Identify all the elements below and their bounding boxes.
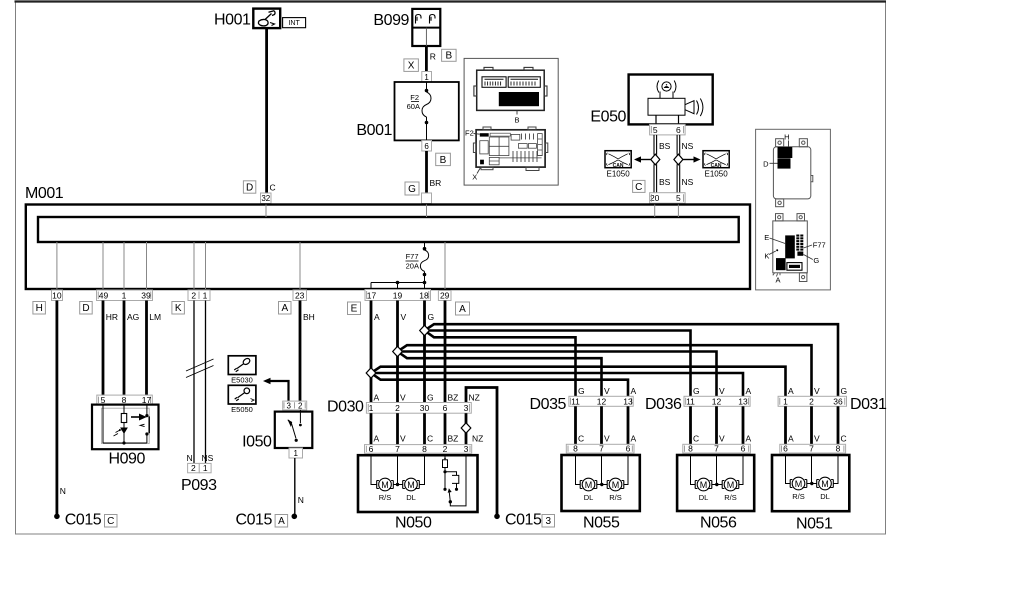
svg-text:1: 1 xyxy=(369,403,374,413)
splice diamond on G xyxy=(420,325,430,335)
wire R from B099 to B001 pin 1 xyxy=(425,46,428,72)
N051 motor DL xyxy=(817,477,834,490)
svg-text:BZ: BZ xyxy=(448,434,459,444)
svg-text:8: 8 xyxy=(122,395,127,405)
I050 internal switch xyxy=(288,410,301,439)
svg-text:2: 2 xyxy=(191,463,196,473)
svg-text:29: 29 xyxy=(440,290,450,300)
svg-text:A: A xyxy=(788,434,794,444)
svg-text:I050: I050 xyxy=(242,434,272,451)
svg-text:E5050: E5050 xyxy=(231,405,253,414)
svg-text:H090: H090 xyxy=(109,451,146,468)
N055 pin strip 8 7 6 xyxy=(566,444,634,454)
E050 siren icon xyxy=(648,81,703,125)
A branch to D035 pin 13 xyxy=(371,373,628,396)
N051 pin strip 6 7 8 xyxy=(780,444,846,454)
INT box label xyxy=(283,18,306,28)
fuse value label F2 60A xyxy=(407,93,420,111)
V branch to D031 pin 2 xyxy=(398,345,812,396)
M001 pin 10 box xyxy=(52,290,63,301)
connector label E (boxed) xyxy=(348,302,361,315)
svg-text:C: C xyxy=(270,183,276,193)
svg-text:6: 6 xyxy=(783,444,788,454)
H001 icon xyxy=(258,11,275,26)
fuse F2 60A symbol inside B001 xyxy=(422,82,431,140)
wire BH from M001 pin 23 to I050 xyxy=(299,301,302,402)
svg-text:DL: DL xyxy=(820,492,830,501)
H090 pin strip 5 8 17 xyxy=(97,395,153,405)
M001 pin strip 17 19 18 xyxy=(365,290,431,301)
bottom-left black block xyxy=(776,258,786,270)
svg-text:R/S: R/S xyxy=(379,493,392,502)
svg-text:A: A xyxy=(459,304,466,315)
I050 pin strip 3 2 xyxy=(283,401,307,410)
twisted pair wires to P093 xyxy=(193,301,195,464)
M001 internal pin stubs (top) xyxy=(266,205,678,218)
svg-text:M: M xyxy=(381,480,389,490)
svg-text:R/S: R/S xyxy=(724,493,737,502)
svg-text:N: N xyxy=(187,453,193,463)
svg-text:DL: DL xyxy=(406,493,416,502)
N056 motor DL xyxy=(695,478,712,491)
svg-text:X: X xyxy=(408,61,415,72)
svg-text:3: 3 xyxy=(546,516,552,527)
svg-text:2: 2 xyxy=(443,444,448,454)
fusebox mini-picture X xyxy=(473,127,547,171)
svg-text:C: C xyxy=(841,434,847,444)
svg-text:1: 1 xyxy=(783,396,788,406)
E050 pin strip 5 6 xyxy=(650,124,686,134)
svg-text:12: 12 xyxy=(597,396,607,406)
svg-text:18: 18 xyxy=(419,290,429,300)
door lock actuator N051 box xyxy=(772,455,849,511)
svg-text:7: 7 xyxy=(599,444,604,454)
bottom connector strip xyxy=(787,263,802,271)
svg-text:2: 2 xyxy=(298,401,303,410)
svg-text:D030: D030 xyxy=(327,399,364,416)
svg-text:5: 5 xyxy=(676,193,681,203)
svg-text:HR: HR xyxy=(106,312,118,322)
svg-text:5: 5 xyxy=(653,125,658,135)
svg-text:D: D xyxy=(763,160,769,169)
M001 inner box xyxy=(38,217,739,242)
siren E050 label and box xyxy=(590,75,712,126)
svg-text:BR: BR xyxy=(430,178,442,188)
svg-text:8: 8 xyxy=(688,444,693,454)
connector D block with label xyxy=(778,158,791,168)
CAN wire NS (double line) xyxy=(677,135,680,193)
svg-text:R/S: R/S xyxy=(792,492,805,501)
connector label G (boxed) xyxy=(405,182,419,195)
svg-text:CAN: CAN xyxy=(711,163,722,169)
svg-text:M: M xyxy=(700,480,708,490)
svg-text:B099: B099 xyxy=(373,12,409,29)
connector label X (boxed) xyxy=(404,59,419,72)
body computer mini-picture B xyxy=(474,67,547,110)
fusebox B001 xyxy=(356,82,458,140)
G branch to D031 pin 36 xyxy=(425,324,839,396)
svg-text:G: G xyxy=(693,386,700,396)
svg-text:A: A xyxy=(374,312,380,322)
svg-text:2: 2 xyxy=(809,396,814,406)
border frame xyxy=(15,2,887,535)
locator box (right side) xyxy=(756,129,831,290)
svg-text:D031: D031 xyxy=(850,396,887,413)
svg-text:N056: N056 xyxy=(700,515,737,532)
G branch to D035 pin 11 xyxy=(425,331,576,397)
svg-text:6: 6 xyxy=(424,142,429,151)
svg-text:8: 8 xyxy=(422,444,427,454)
N056 motor R/S xyxy=(722,478,739,491)
svg-text:3: 3 xyxy=(464,403,469,413)
svg-text:D036: D036 xyxy=(645,396,682,413)
wire HR to H090 xyxy=(102,301,105,396)
wire LM to H090 xyxy=(145,301,148,396)
svg-text:V: V xyxy=(719,386,725,396)
svg-text:BZ: BZ xyxy=(448,393,459,403)
svg-text:23: 23 xyxy=(295,291,305,301)
connector label D (boxed) xyxy=(80,302,93,315)
wires D030 to N050 xyxy=(371,413,466,444)
svg-text:F2: F2 xyxy=(465,129,474,138)
svg-text:A: A xyxy=(278,516,285,527)
svg-text:2: 2 xyxy=(191,291,196,301)
svg-text:M: M xyxy=(795,479,803,489)
splice diamond on NS xyxy=(674,154,683,165)
svg-text:N055: N055 xyxy=(583,515,620,532)
wire A from M001 pin 17 to D030 pin 1 xyxy=(370,301,373,403)
svg-text:8: 8 xyxy=(573,444,578,454)
wires D036 to N056 xyxy=(691,406,744,444)
N050 internal wiring xyxy=(371,455,425,484)
ground C015 (3) xyxy=(494,514,500,520)
svg-text:6: 6 xyxy=(676,125,681,135)
svg-text:V: V xyxy=(400,393,406,403)
M001 pin strip 20 5 xyxy=(650,193,686,204)
svg-text:1: 1 xyxy=(293,449,298,458)
svg-text:C015: C015 xyxy=(65,512,102,529)
G branch to D036 pin 11 xyxy=(425,331,691,397)
connector K dot with label xyxy=(776,249,778,251)
svg-text:M: M xyxy=(612,480,620,490)
M001 pin 29 box xyxy=(438,290,451,300)
splice diamond on NZ xyxy=(461,423,471,433)
svg-text:M: M xyxy=(585,480,593,490)
locator top module (relay box) xyxy=(773,139,812,207)
door lock actuator N055 box xyxy=(562,455,640,511)
svg-text:20A: 20A xyxy=(406,262,419,271)
ground wire NZ from C015/3 up and into D030 pin 3 xyxy=(466,388,497,516)
hazard switch H090 box xyxy=(92,405,159,450)
H090 internal circuit xyxy=(103,405,149,443)
svg-text:B001: B001 xyxy=(356,122,392,139)
svg-text:1: 1 xyxy=(122,291,127,301)
svg-text:C: C xyxy=(107,516,114,527)
wires D035 to N055 xyxy=(576,406,629,444)
svg-text:3: 3 xyxy=(464,444,469,454)
svg-text:E1050: E1050 xyxy=(705,170,729,179)
connector label D (boxed) xyxy=(243,181,255,194)
svg-text:C015: C015 xyxy=(505,512,542,529)
svg-text:DL: DL xyxy=(584,493,594,502)
svg-text:R/S: R/S xyxy=(609,493,622,502)
svg-text:NS: NS xyxy=(682,177,694,187)
connector label H (boxed) xyxy=(33,302,46,315)
connector H block with label xyxy=(778,147,793,158)
H090 inner thin frame xyxy=(102,408,150,443)
N050 pin strip 6 7 8 2 3 xyxy=(365,444,472,454)
svg-text:E050: E050 xyxy=(590,109,626,126)
svg-text:F77: F77 xyxy=(406,252,419,261)
splice diamond on V xyxy=(393,346,403,356)
pin 32 of M001 xyxy=(261,193,272,204)
svg-text:7: 7 xyxy=(395,444,400,454)
M001 pin 23 box xyxy=(293,290,307,301)
svg-text:NZ: NZ xyxy=(472,434,483,444)
V branch to D035 pin 12 xyxy=(398,352,602,397)
connector label K (boxed) xyxy=(172,302,185,315)
wire V from M001 pin 19 to D030 pin 2 xyxy=(396,301,399,403)
V branch to D036 pin 12 xyxy=(398,352,717,397)
svg-text:5: 5 xyxy=(101,395,106,405)
svg-text:G: G xyxy=(841,386,848,396)
svg-text:M: M xyxy=(407,480,415,490)
twisted pair marks xyxy=(186,359,214,378)
door lock actuator N056 box xyxy=(677,455,754,511)
svg-text:C: C xyxy=(578,434,584,444)
N050 thermal switch branch xyxy=(443,455,467,506)
svg-text:17: 17 xyxy=(142,395,152,405)
connector label A (boxed) xyxy=(279,302,292,315)
N056 pin strip 8 7 6 xyxy=(683,444,751,454)
svg-text:A: A xyxy=(788,386,794,396)
door lock actuator N050 box xyxy=(358,455,478,512)
glow plug / key switch I050 box xyxy=(275,412,313,448)
pin 6 of B001 xyxy=(422,141,432,152)
svg-text:36: 36 xyxy=(833,396,843,406)
N050 motor R/S xyxy=(377,478,394,491)
key symbol E5030 xyxy=(228,356,256,385)
svg-text:13: 13 xyxy=(738,396,748,406)
battery B099 label and box xyxy=(373,9,440,46)
svg-text:A: A xyxy=(631,386,637,396)
M001 internal pin stubs (bottom) xyxy=(57,242,445,289)
svg-text:E: E xyxy=(764,233,769,242)
M001 pin strip 49 1 39 xyxy=(97,290,153,301)
svg-text:1: 1 xyxy=(424,73,429,82)
svg-text:17: 17 xyxy=(367,290,377,300)
wire G from M001 pin 18 to D030 pin 30 xyxy=(423,301,426,403)
junction rail from fuse to pins 17 19 18 xyxy=(371,283,425,290)
svg-text:F2: F2 xyxy=(410,93,419,102)
A branch to D031 pin 1 xyxy=(371,367,786,397)
svg-text:11: 11 xyxy=(686,396,695,406)
connector D031 strip and label xyxy=(778,396,846,406)
svg-text:DL: DL xyxy=(699,493,709,502)
svg-text:A: A xyxy=(776,276,781,285)
connector label C (boxed) xyxy=(633,180,645,192)
svg-text:C: C xyxy=(693,434,699,444)
I050 pin 1 box xyxy=(289,448,303,458)
arrow to left E1050 xyxy=(640,159,651,161)
svg-text:BS: BS xyxy=(659,141,671,151)
svg-text:12: 12 xyxy=(712,396,722,406)
svg-text:C: C xyxy=(427,434,433,444)
svg-text:N050: N050 xyxy=(395,515,432,532)
svg-text:H: H xyxy=(36,303,43,314)
svg-text:7: 7 xyxy=(714,444,719,454)
svg-text:A: A xyxy=(631,434,637,444)
svg-text:V: V xyxy=(814,434,820,444)
fuse F77 20A inside M001 xyxy=(420,242,428,283)
B099 battery clamp icon xyxy=(416,15,436,24)
svg-text:30: 30 xyxy=(420,403,430,413)
arrow from I050 pin 3 to key switch xyxy=(263,378,289,401)
svg-text:CAN: CAN xyxy=(613,163,624,169)
arrow to right E1050 xyxy=(683,159,694,161)
wire N from I050 to ground C015/A xyxy=(294,458,296,515)
svg-text:8: 8 xyxy=(836,444,841,454)
svg-text:V: V xyxy=(604,386,610,396)
M001 pin strip 2 1 xyxy=(188,290,210,301)
svg-text:V: V xyxy=(719,434,725,444)
svg-text:V: V xyxy=(400,434,406,444)
fuse row F77 with label xyxy=(796,235,803,251)
svg-text:V: V xyxy=(814,386,820,396)
N055 motor DL xyxy=(580,478,597,491)
ground C015 (A) xyxy=(292,514,298,520)
connector E block with label xyxy=(785,235,795,258)
CAN wire BS (double line) xyxy=(654,135,657,193)
pin 1 of B001 xyxy=(422,72,432,83)
svg-text:13: 13 xyxy=(623,396,633,406)
svg-text:E1050: E1050 xyxy=(607,170,631,179)
svg-text:D: D xyxy=(82,303,89,314)
svg-text:K: K xyxy=(764,251,769,260)
svg-text:A: A xyxy=(374,434,380,444)
svg-text:7: 7 xyxy=(809,444,814,454)
svg-text:A: A xyxy=(281,303,288,314)
svg-text:6: 6 xyxy=(369,444,374,454)
svg-text:X: X xyxy=(472,173,477,182)
connector label A (boxed, right) xyxy=(456,302,470,315)
svg-text:M: M xyxy=(727,480,735,490)
svg-text:D: D xyxy=(246,182,253,193)
svg-text:G: G xyxy=(408,184,416,195)
svg-text:H001: H001 xyxy=(214,12,251,29)
svg-text:LM: LM xyxy=(149,312,161,322)
svg-text:N: N xyxy=(298,495,304,505)
svg-text:M001: M001 xyxy=(25,185,64,202)
svg-text:19: 19 xyxy=(393,290,403,300)
locator picture for B001/B099 (body computer + fusebox) xyxy=(464,58,558,185)
label B with pointer xyxy=(516,110,518,114)
svg-text:BH: BH xyxy=(303,312,315,322)
connector label B (boxed) xyxy=(442,49,457,61)
N051 internal wiring xyxy=(786,455,839,484)
svg-text:1: 1 xyxy=(203,291,208,301)
svg-text:NS: NS xyxy=(202,453,214,463)
svg-text:N: N xyxy=(60,486,66,496)
svg-text:AG: AG xyxy=(127,312,139,322)
svg-text:H: H xyxy=(784,133,789,142)
svg-text:E5030: E5030 xyxy=(231,376,253,385)
svg-text:B: B xyxy=(514,116,519,125)
svg-text:N051: N051 xyxy=(796,516,833,533)
N050 motor DL xyxy=(403,478,420,491)
N055 motor R/S xyxy=(607,478,624,491)
CAN node E1050 (left) xyxy=(605,151,631,179)
N056 internal wiring xyxy=(691,455,744,485)
splice diamond on A xyxy=(366,368,376,378)
svg-text:C: C xyxy=(635,182,642,193)
ground C015 (C) xyxy=(54,514,60,520)
svg-text:INT: INT xyxy=(288,20,300,27)
svg-text:P093: P093 xyxy=(181,477,217,494)
svg-text:11: 11 xyxy=(571,396,580,406)
N055 internal wiring xyxy=(576,455,629,485)
svg-text:32: 32 xyxy=(261,194,270,203)
svg-text:60A: 60A xyxy=(407,102,420,111)
N051 motor R/S xyxy=(790,477,807,490)
svg-text:G: G xyxy=(428,312,435,322)
svg-text:V: V xyxy=(604,434,610,444)
wire AG to H090 xyxy=(123,301,126,396)
svg-text:BS: BS xyxy=(659,177,671,187)
svg-text:G: G xyxy=(813,256,819,265)
wire BR from B001 to M001 xyxy=(425,151,428,193)
svg-text:V: V xyxy=(401,312,407,322)
connector G block with label xyxy=(797,252,803,256)
svg-text:NZ: NZ xyxy=(469,393,480,403)
wire N from M001 pin 10 to ground C015/C xyxy=(56,301,59,516)
svg-text:G: G xyxy=(578,386,585,396)
M001 outer box xyxy=(26,205,750,290)
svg-text:E: E xyxy=(351,304,358,315)
wire C from H001 to M001 pin 32 xyxy=(265,28,268,193)
svg-text:49: 49 xyxy=(99,291,109,301)
A branch to D036 pin 13 xyxy=(371,373,743,396)
wire BZ from M001 pin 29 to D030 xyxy=(444,301,447,403)
svg-text:NS: NS xyxy=(682,141,694,151)
svg-text:B: B xyxy=(440,155,447,166)
svg-text:3: 3 xyxy=(286,401,291,410)
svg-text:10: 10 xyxy=(52,291,62,301)
svg-text:D035: D035 xyxy=(530,396,567,413)
svg-text:6: 6 xyxy=(443,403,448,413)
svg-text:F77: F77 xyxy=(813,241,826,250)
svg-text:A: A xyxy=(374,393,380,403)
svg-text:R: R xyxy=(430,52,436,62)
svg-text:A: A xyxy=(746,386,752,396)
svg-text:C015: C015 xyxy=(236,512,273,529)
svg-text:6: 6 xyxy=(626,444,631,454)
unnumbered pin box at M001 top for BR wire xyxy=(422,193,432,204)
wires D031 to N051 xyxy=(786,406,839,444)
svg-text:A: A xyxy=(746,434,752,444)
svg-text:G: G xyxy=(427,393,434,403)
connector label B (boxed) below B001 xyxy=(436,153,451,166)
svg-text:M: M xyxy=(821,479,829,489)
svg-text:B: B xyxy=(445,51,452,62)
svg-text:1: 1 xyxy=(203,463,208,473)
switch H001 (hazard) label and box xyxy=(214,9,280,29)
svg-text:6: 6 xyxy=(741,444,746,454)
svg-text:39: 39 xyxy=(141,291,151,301)
locator bottom module (junction unit) xyxy=(773,214,808,282)
svg-text:2: 2 xyxy=(395,403,400,413)
key symbol E5050 xyxy=(228,385,256,414)
